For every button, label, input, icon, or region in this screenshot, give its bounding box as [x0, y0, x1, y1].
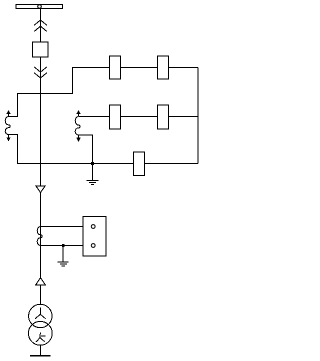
terminal bar [30, 355, 51, 357]
arrester L2 top arrow [77, 111, 80, 114]
winding W1 coil on feeder [37, 227, 42, 246]
wire: breaker to lower feeder [40, 57, 42, 186]
cable termination triangle (down) [36, 186, 46, 193]
ground G1 [87, 164, 99, 185]
cable termination triangle (up) [36, 278, 46, 285]
busbar connection circle [38, 5, 42, 9]
disconnector chevron (down, first) [34, 67, 47, 72]
wire: left riser and upper rail to branch corner [9, 68, 199, 117]
busbar B1 [16, 5, 63, 9]
resistor R5 (lower rail box) [134, 152, 145, 176]
transformer T1 secondary circle [28, 321, 52, 345]
ground G2 [58, 246, 69, 267]
resistor R1 (top branch left box) [110, 56, 121, 79]
resistor R2 (top branch right box) [158, 56, 169, 79]
arrester L1 bottom arrow [8, 135, 10, 139]
disconnector chevron (up, second) [34, 26, 47, 31]
wire: right vertical bus [197, 68, 199, 164]
circuit breaker box [33, 42, 49, 57]
resistor R4 (middle branch right box) [158, 105, 169, 129]
transformer T1 primary winding symbol (wye) [35, 308, 45, 319]
wire: main vertical feeder (busbar to breaker box) [40, 9, 42, 43]
transformer T1 secondary winding symbol (wye with neutral) [36, 332, 45, 342]
arrester L2 bottom arrow [78, 135, 80, 139]
disconnector chevron (up, first) [34, 20, 47, 25]
wire: arrester L2 bottom jog and riser to lower rail [79, 135, 93, 164]
wire: lower rail [9, 135, 199, 164]
transformer T1 primary circle [29, 304, 52, 327]
arrester L2 coil [75, 117, 80, 136]
wire: feeder continues to transformer [40, 193, 42, 278]
arrester L1 top arrow [7, 111, 10, 114]
node: junction lower tap / ground riser [62, 244, 65, 247]
wire: triangle to transformer T1 [40, 285, 42, 305]
terminal circle pin 1 [91, 225, 95, 229]
wire: transformer to terminal bar [40, 345, 42, 355]
wire: upper tap to terminal box [41, 226, 91, 228]
node: junction lower rail / ground riser [91, 162, 94, 165]
wire: lower tap to terminal box [41, 245, 91, 247]
terminal circle pin 2 [91, 244, 95, 248]
resistor R3 (middle branch left box) [110, 105, 121, 129]
wire: middle branch [79, 116, 198, 118]
terminal box U1 [83, 217, 106, 257]
disconnector chevron (down, second) [34, 73, 47, 78]
arrester L1 coil [5, 117, 10, 135]
